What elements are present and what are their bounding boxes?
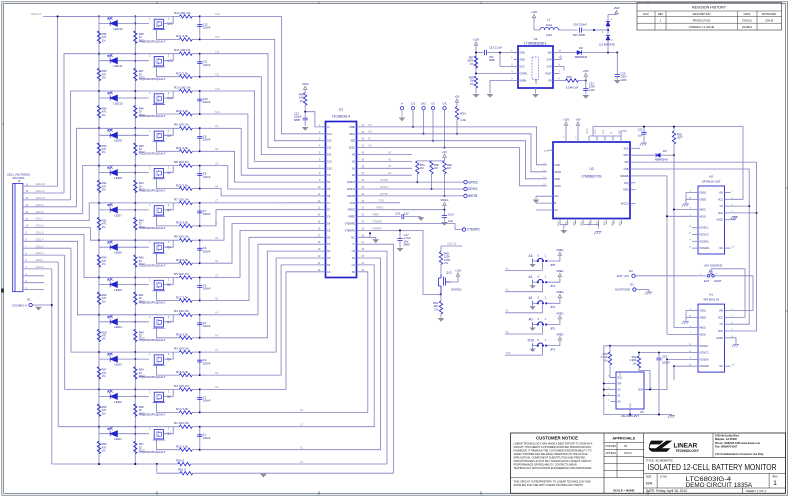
svg-text:R59: R59 [566, 75, 572, 79]
svg-text:1%: 1% [102, 449, 106, 453]
svg-text:S12: S12 [327, 139, 332, 143]
power +5V above R53 [454, 95, 459, 107]
title block [511, 433, 786, 493]
svg-text:SDO: SDO [623, 154, 628, 157]
svg-text:10uH: 10uH [546, 23, 552, 27]
H1 pin 4 SCK [718, 329, 733, 333]
wire net CS to U2 [361, 123, 548, 165]
svg-text:C15: C15 [395, 212, 401, 216]
svg-text:TOS: TOS [378, 199, 384, 203]
svg-text:04/18/14: 04/18/14 [742, 25, 753, 29]
wire net S6 to U1 pin 15 [200, 224, 322, 264]
H2 pin 14 NC [720, 246, 735, 250]
H1 GND2 chassis ground [731, 338, 740, 347]
J1 pin 2 [23, 280, 44, 283]
resistor R9 100 1% (net C9) [99, 123, 200, 130]
svg-text:Fax: (408)434-0507: Fax: (408)434-0507 [715, 445, 738, 448]
cell block 11: wire columns [98, 53, 136, 92]
svg-text:RQJ0303PGQGALT: RQJ0303PGQGALT [140, 189, 166, 193]
svg-text:CUSTOMER NOTICE: CUSTOMER NOTICE [536, 436, 578, 441]
resistor R43 33 2512 [134, 217, 146, 230]
svg-text:GND: GND [604, 221, 606, 226]
svg-text:100nF: 100nF [203, 100, 211, 104]
svg-text:CELL12: CELL12 [31, 12, 42, 16]
cell block 1: wire columns [98, 426, 136, 465]
svg-text:VERIFY PROPER AND RELIABLE OPE: VERIFY PROPER AND RELIABLE OPERATION IN … [514, 452, 589, 456]
jumper JP6 +5V SOURCE [698, 264, 745, 318]
power +54V at R59 [583, 69, 589, 81]
svg-text:N/A: N/A [646, 480, 653, 485]
cell block 6: wire columns [98, 239, 136, 278]
svg-text:1%: 1% [102, 188, 106, 192]
svg-text:C7: C7 [327, 201, 331, 205]
svg-text:L1: L1 [547, 18, 551, 22]
svg-text:100nF: 100nF [203, 287, 211, 291]
svg-text:CK: CK [368, 144, 372, 148]
svg-text:R7 100 1%: R7 100 1% [174, 197, 189, 201]
J1 pin 13 net CELL9 [23, 128, 99, 207]
capacitor C18 220nF 50V 0805 [573, 23, 601, 37]
connector J1 CELL VOLTAGES 50V MAX [7, 172, 30, 291]
svg-text:LED11: LED11 [114, 64, 123, 68]
svg-text:S10: S10 [327, 166, 332, 170]
svg-text:CELL2: CELL2 [36, 251, 44, 255]
svg-text:ISOLATED 12-CELL BATTERY MONIT: ISOLATED 12-CELL BATTERY MONITOR [648, 463, 777, 472]
svg-text:LT3499EDDB-1: LT3499EDDB-1 [524, 42, 546, 46]
svg-text:SHDN: SHDN [520, 80, 527, 83]
svg-text:RQJ0303PGQGALT: RQJ0303PGQGALT [140, 114, 166, 118]
H2 pin 12 ISOGND [689, 246, 710, 250]
net VREG with C14 [361, 198, 454, 223]
terminal E3 EXT +5V [617, 269, 698, 278]
U1 pin 40 A3 [352, 153, 365, 157]
svg-text:1uF: 1uF [638, 134, 643, 138]
svg-text:C2: C2 [327, 270, 331, 274]
test point CK [442, 102, 446, 149]
MOSFET Q5 RQJ0303PGQGALT [140, 278, 180, 305]
jumper JP5 A3 [505, 248, 564, 271]
MOSFET Q3 RQJ0303PGQGALT [140, 352, 180, 379]
svg-text:D1 BAT54S: D1 BAT54S [599, 43, 615, 47]
resistor R52 1M [443, 161, 453, 197]
U1 pin 28 NC [351, 235, 365, 239]
IC U5 24LC025-I/ST EEPROM [616, 372, 644, 418]
svg-text:CELL1: CELL1 [36, 258, 44, 262]
resistor R23 3.3k (net S11) [176, 72, 200, 79]
ground below U2 left [560, 225, 567, 234]
svg-text:APPROVED: APPROVED [762, 12, 777, 16]
svg-text:ECO: ECO [643, 12, 649, 16]
LED3 [99, 353, 149, 366]
resistor R29 470 1% [97, 292, 107, 305]
power +12V +5V for U2 [563, 118, 581, 142]
ground below R64 [438, 318, 445, 322]
svg-text:S11: S11 [327, 153, 332, 157]
U2 right pins [620, 147, 635, 205]
svg-text:GND1: GND1 [700, 192, 707, 195]
resistor R26 470 1% [97, 404, 107, 417]
MOSFET Q7 RQJ0303PGQGALT [140, 203, 180, 230]
U1 pin 21 S3 [318, 263, 331, 267]
svg-text:A2+: A2+ [555, 195, 560, 198]
svg-text:SDI2: SDI2 [623, 189, 629, 192]
U1 pin 17 S5 [318, 235, 331, 239]
svg-text:GND: GND [520, 59, 526, 62]
J1 pin 1 [23, 287, 44, 290]
U1 pin 4 C11 [319, 146, 332, 150]
svg-text:H2: H2 [709, 175, 713, 179]
svg-text:Q13: Q13 [446, 271, 452, 275]
cell block 9: wire columns [98, 127, 136, 166]
svg-text:S6: S6 [327, 222, 331, 226]
svg-text:NC: NC [720, 247, 724, 250]
svg-text:LED8: LED8 [114, 176, 122, 180]
svg-text:GND0: GND0 [700, 316, 707, 319]
svg-text:CELL5: CELL5 [36, 231, 44, 235]
resistor R10 100 1% (net C10) [99, 85, 200, 92]
svg-text:V-: V- [353, 242, 356, 246]
svg-text:SCK: SCK [718, 212, 723, 215]
svg-text:07/03/11: 07/03/11 [742, 18, 752, 22]
LED10 [99, 92, 149, 105]
resistor R33 470 1% [97, 143, 107, 156]
resistor R44 33 2512 [134, 180, 146, 193]
resistor R12 100 1% (net C12) [43, 11, 200, 18]
svg-text:VREG: VREG [348, 208, 355, 212]
jumper JP1 TOS [505, 332, 564, 355]
LED1 [99, 428, 149, 441]
ground below C21 [582, 95, 589, 99]
svg-text:S5: S5 [327, 235, 331, 239]
H2 pin 8 GND2 [716, 218, 733, 222]
svg-text:PRODUCTION: PRODUCTION [693, 18, 711, 22]
MOSFET Q6 RQJ0303PGQGALT [140, 240, 180, 267]
svg-text:SDO: SDO [349, 132, 355, 136]
svg-text:+12V: +12V [563, 118, 570, 122]
svg-text:R17 3.3k: R17 3.3k [176, 295, 189, 299]
ground below C20 [614, 80, 621, 84]
LED7 [99, 204, 149, 217]
wire net TOS stub [361, 199, 401, 203]
resistor R64 10K 1% [433, 294, 443, 317]
U5 pin 1 A0 [608, 400, 621, 404]
svg-text:U1: U1 [339, 108, 343, 112]
H1 pin 7 MOSI [690, 333, 706, 337]
svg-text:RQJ0303PGQGALT: RQJ0303PGQGALT [140, 338, 166, 342]
svg-text:HOSTGND: HOSTGND [615, 288, 631, 292]
svg-text:1: 1 [773, 480, 777, 487]
svg-text:VCC: VCC [520, 66, 525, 69]
svg-text:HOWEVER, IT REMAINS THE CUSTOM: HOWEVER, IT REMAINS THE CUSTOMER'S RESPO… [514, 448, 592, 452]
svg-text:SPI BUS IN: SPI BUS IN [703, 298, 719, 302]
svg-text:-: - [660, 26, 661, 29]
svg-text:0805: 0805 [404, 243, 411, 247]
svg-text:CORRECT L1 VALUE: CORRECT L1 VALUE [689, 25, 715, 29]
U5 pin 6 SCL [608, 376, 623, 380]
U1 pin 32 VREG [348, 208, 365, 212]
svg-text:A1: A1 [352, 166, 356, 170]
U1 pin 5 S11 [319, 153, 332, 157]
wire MOSI vertical [636, 176, 668, 335]
svg-text:VTEMP1: VTEMP1 [345, 228, 356, 232]
svg-text:EXT +5V: EXT +5V [617, 274, 629, 278]
U4 pin 2 GND [511, 58, 525, 62]
resistor R8 100 1% (net C8) [99, 160, 200, 167]
svg-text:DESCRIPTION: DESCRIPTION [693, 12, 711, 16]
U5 pin 5 SDA [638, 388, 653, 392]
U2 bottom GND pins [558, 219, 622, 229]
chassis ground EEPROM [668, 416, 675, 419]
wire CAP pins charge pump [558, 56, 565, 74]
svg-text:+12V: +12V [531, 10, 538, 14]
svg-text:LTC6803G-4: LTC6803G-4 [332, 115, 350, 119]
resistor R47 33 2512 [134, 68, 146, 81]
power +12V for L1 [531, 10, 538, 30]
wire net C0 wrap from U1 right pin [300, 251, 387, 464]
svg-text:R22 3.3k: R22 3.3k [176, 109, 189, 113]
svg-text:CS: CS [720, 323, 724, 326]
svg-text:GND1: GND1 [700, 310, 707, 313]
resistor R31 470 1% [97, 217, 107, 230]
resistor R57 562K 1% [467, 56, 477, 69]
U1 pin 9 S9 [319, 180, 331, 184]
svg-text:VREG: VREG [556, 248, 563, 252]
svg-text:100nF: 100nF [203, 324, 211, 328]
capacitor C1 100nF [197, 426, 211, 451]
svg-text:GND: GND [589, 221, 591, 226]
svg-text:WDTB: WDTB [468, 194, 477, 198]
svg-text:GND: GND [558, 221, 560, 226]
inductor L1 10uH 1210 [534, 18, 578, 37]
svg-text:GND: GND [620, 221, 622, 226]
cell block 12: wire columns [98, 15, 136, 54]
wire net S1 wrap from U1 right pin [200, 258, 381, 450]
wire net C8 to U1 pin 10 [200, 162, 322, 189]
svg-text:Phone: (408)432-1900 www.lin: Phone: (408)432-1900 www.linear.com [715, 442, 761, 445]
resistor R59 3.24M 1% [558, 75, 587, 90]
net ISOGND row [673, 365, 692, 367]
svg-text:CELL12: CELL12 [36, 182, 46, 186]
svg-text:R10 100 1%: R10 100 1% [174, 85, 191, 89]
op-amp U2 LTM2882Y-5S isolated SPI [553, 142, 630, 219]
svg-text:1%: 1% [102, 225, 106, 229]
H1 pin 12 ISOGND [689, 364, 710, 368]
power +12V for U4 [473, 38, 480, 74]
svg-text:A1: A1 [528, 296, 532, 300]
U4 pin 4 CNTRL [511, 72, 528, 76]
svg-text:JP5: JP5 [550, 263, 556, 267]
wire U2 SDI chain to H1 SCK [636, 162, 758, 331]
svg-text:VCC: VCC [718, 316, 723, 319]
svg-text:CSB: CSB [555, 164, 560, 167]
MOSFET Q9 RQJ0303PGQGALT [140, 128, 180, 155]
svg-text:R24 3.3k: R24 3.3k [176, 34, 189, 38]
svg-text:R3 100 1%: R3 100 1% [174, 347, 189, 351]
LED11 [99, 55, 149, 68]
wire net S5 to U1 pin 17 [200, 237, 322, 300]
resistor R37 33 2512 [134, 441, 146, 454]
svg-text:+12V: +12V [473, 38, 480, 42]
svg-text:ISOSCL: ISOSCL [700, 227, 709, 230]
capacitor C22 1uF [636, 127, 647, 149]
svg-text:1%: 1% [102, 150, 106, 154]
svg-text:E2: E2 [630, 283, 634, 287]
svg-text:R8 100 1%: R8 100 1% [174, 160, 189, 164]
svg-text:CS: CS [720, 205, 724, 208]
U5 address pins grounded [603, 346, 672, 416]
svg-text:RQJ0303PGQGALT: RQJ0303PGQGALT [140, 301, 166, 305]
svg-text:PERFORMANCE OR RELIABILITY. C: PERFORMANCE OR RELIABILITY. CONTACT LINE… [514, 463, 577, 467]
svg-text:1%: 1% [102, 299, 106, 303]
resistor R65 113K 1206 1% [439, 252, 450, 275]
svg-text:C10: C10 [215, 88, 220, 91]
svg-text:VOUT: VOUT [545, 73, 552, 76]
wire net C10 to U1 pin 6 [200, 88, 322, 162]
svg-text:WDTB: WDTB [380, 192, 388, 196]
svg-text:A2: A2 [528, 275, 532, 279]
resistor R40 33 2512 [134, 329, 146, 342]
svg-text:1%: 1% [604, 358, 608, 362]
LED9 [99, 129, 149, 142]
svg-text:IC NO.: IC NO. [660, 475, 668, 478]
header H2 SPI BUS OUT [698, 175, 725, 255]
transistor Q13 2N7002 [439, 269, 462, 294]
U2 top pins VCC2 VCC VL ON [587, 127, 627, 142]
svg-text:1%: 1% [102, 337, 106, 341]
svg-text:CELL6: CELL6 [36, 224, 44, 228]
svg-text:+5V SOURCE: +5V SOURCE [703, 264, 722, 268]
svg-text:REVISION HISTORY: REVISION HISTORY [692, 6, 727, 10]
svg-text:C1: C1 [352, 263, 356, 267]
svg-text:APP ENG.: APP ENG. [606, 452, 618, 455]
MOSFET Q2 RQJ0303PGQGALT [140, 389, 180, 416]
svg-text:S10: S10 [215, 111, 220, 114]
svg-text:APPROVALS: APPROVALS [612, 437, 635, 441]
LED6 [99, 241, 149, 254]
U1 pin 38 A1 [352, 166, 365, 170]
diode D1 BAT54S dual [599, 15, 615, 47]
svg-text:S8: S8 [327, 194, 331, 198]
cell block 10: wire columns [98, 90, 136, 129]
resistor R28 470 1% [97, 329, 107, 342]
MOSFET Q10 RQJ0303PGQGALT [140, 91, 180, 118]
svg-text:S2: S2 [352, 270, 356, 274]
cell block 7: wire columns [98, 202, 136, 241]
U1 pin 12 C7 [318, 201, 331, 205]
resistor R14 3.3k (net S2) [176, 407, 200, 414]
svg-text:CK: CK [442, 102, 446, 106]
U4 pin 9 CAP [547, 58, 561, 62]
svg-text:C19: C19 [662, 355, 668, 359]
H1 pin 14 NC [720, 364, 735, 368]
svg-text:R15 3.3k: R15 3.3k [176, 370, 189, 374]
U1 pin 44 CSBI [349, 125, 365, 129]
svg-text:LTC Confidential-For Customer: LTC Confidential-For Customer Use Only [715, 453, 764, 456]
svg-text:VTEMP2: VTEMP2 [467, 228, 480, 232]
svg-text:ISOVCC: ISOVCC [700, 234, 709, 237]
svg-text:LED4: LED4 [114, 325, 122, 329]
svg-text:GND: GND [612, 221, 614, 226]
svg-text:DIQ: DIQ [624, 182, 628, 185]
wire net S10 to U1 pin 7 [200, 111, 322, 169]
svg-text:+54V: +54V [302, 82, 309, 86]
resistor R2 100 1% (net C2) [99, 384, 200, 391]
U1 pin 3 S12 [319, 139, 332, 143]
svg-text:MBR0540: MBR0540 [575, 55, 588, 59]
svg-text:100nF: 100nF [662, 361, 670, 365]
jumper JP2 A0 [505, 311, 564, 334]
svg-text:C5: C5 [327, 228, 331, 232]
svg-text:VREG: VREG [556, 269, 563, 273]
svg-text:+5V: +5V [454, 95, 459, 99]
resistor R20 3.3k (net S8) [176, 183, 200, 190]
test point WDTB [361, 192, 478, 198]
U1 pin 16 C5 [318, 228, 331, 232]
capacitor C21 100V 1210 [583, 81, 595, 95]
svg-text:VREF: VREF [348, 215, 355, 219]
svg-text:R53: R53 [460, 111, 466, 115]
U1 pin 41 SCKI [349, 146, 365, 150]
resistor R63 4.99K 1% [600, 346, 616, 378]
H1 pin 2 VCC [718, 316, 734, 320]
svg-text:SDI: SDI [625, 161, 629, 164]
svg-text:A0: A0 [352, 173, 356, 177]
H2 pin 10 ISOVCC [689, 233, 709, 237]
power +5V above pullups [417, 150, 447, 161]
capacitor C6 100nF [197, 239, 211, 264]
svg-text:1%: 1% [102, 38, 106, 42]
svg-text:NC: NC [351, 235, 355, 239]
wire net S9 to U1 pin 9 [200, 148, 322, 182]
svg-text:CAP: CAP [547, 66, 552, 69]
svg-text:C11: C11 [327, 146, 332, 150]
H2 GND2 chassis ground [731, 216, 739, 220]
svg-text:CAP: CAP [547, 59, 552, 62]
svg-text:GPIO1: GPIO1 [347, 187, 355, 191]
svg-text:V-: V- [401, 102, 404, 106]
svg-text:LED3: LED3 [114, 363, 122, 367]
U5 pin 7 WP [608, 382, 621, 386]
svg-text:C6: C6 [327, 215, 331, 219]
svg-text:VREG: VREG [556, 290, 563, 294]
svg-text:R11 100 1%: R11 100 1% [174, 48, 191, 52]
U1 pin 37 A0 [352, 173, 365, 177]
H1 pin 10 ISOVCC [689, 351, 709, 355]
resistor R4 100 1% (net C4) [99, 309, 200, 316]
svg-text:E3: E3 [629, 269, 633, 273]
U1 pin 25 S1 [352, 256, 365, 260]
U1 pin 10 C8 [318, 187, 331, 191]
wire net DO to U2 [361, 130, 548, 172]
cell block 8: wire columns [98, 165, 136, 204]
svg-text:CS: CS [368, 123, 372, 127]
wire net A2 stub [361, 157, 413, 161]
svg-text:OPT: OPT [677, 136, 683, 140]
svg-text:50V MAX: 50V MAX [12, 176, 24, 180]
ground below R58 [473, 94, 480, 98]
wire net S4 to U1 pin 19 [200, 251, 322, 338]
svg-text:SIZE: SIZE [646, 475, 652, 478]
svg-text:LED6: LED6 [114, 251, 122, 255]
svg-text:S1: S1 [352, 256, 356, 260]
U1 pin 18 C4 [318, 242, 331, 246]
svg-text:SCKI: SCKI [349, 146, 355, 150]
svg-text:100nF: 100nF [203, 361, 211, 365]
svg-text:C8: C8 [327, 187, 331, 191]
svg-text:C11: C11 [215, 51, 220, 54]
H1 pin 11 ISOSCL [689, 344, 709, 348]
svg-text:C4: C4 [327, 242, 331, 246]
